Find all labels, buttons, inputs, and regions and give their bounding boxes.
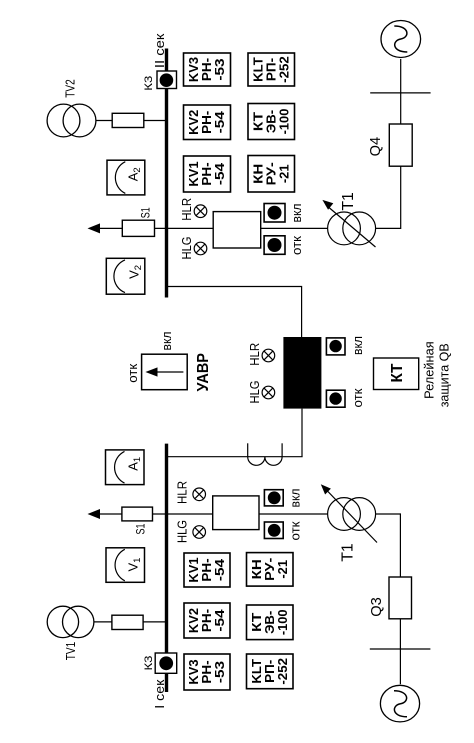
svg-text:KLTРП--252: KLTРП--252: [250, 56, 291, 83]
wire drive box to T1 (top): [261, 227, 328, 229]
relay КН РУ-21 (top): [248, 156, 295, 193]
winding coil on tie line: [248, 443, 282, 465]
svg-text:отк: отк: [290, 235, 304, 255]
arrow feeder (bottom): [88, 509, 101, 519]
wire Q3 to generator (bottom): [399, 619, 401, 684]
relay КН РУ-21 (bottom): [247, 553, 294, 587]
switch S1 (bottom): [122, 507, 153, 521]
svg-text:S1: S1: [138, 207, 152, 218]
relay KV3 РН-53 (top): [184, 53, 231, 86]
short-circuit marker K3 on busbar II: [157, 71, 177, 89]
svg-text:KV2РН--54: KV2РН--54: [186, 608, 227, 633]
svg-text:I сек: I сек: [152, 679, 167, 708]
svg-text:отк: отк: [289, 521, 303, 541]
svg-text:KV3РН--53: KV3РН--53: [186, 57, 227, 82]
voltage transformer TV2: [47, 104, 96, 137]
voltmeter V2: [106, 258, 145, 294]
transformer T1 (bottom): [326, 490, 377, 543]
lamp HLG (bottom): [193, 526, 206, 539]
svg-text:Q3: Q3: [368, 597, 385, 617]
svg-text:KV3РН--53: KV3РН--53: [186, 659, 227, 684]
switch S1 (top): [122, 220, 154, 236]
wire fuse to busbar II: [144, 120, 165, 122]
wire T1 to Q3: [376, 514, 401, 577]
svg-text:HLR: HLR: [247, 343, 262, 366]
relay KV3 РН-53 (bottom): [184, 654, 230, 690]
relay KV2 РН-54 (top): [184, 105, 231, 140]
svg-text:KV2РН--54: KV2РН--54: [186, 110, 227, 135]
tie tick line (bottom): [370, 648, 431, 650]
wire busbar II to contactor QB: [168, 287, 302, 338]
lamp HLR (middle): [262, 349, 275, 362]
wire TV1 to fuse: [94, 621, 112, 623]
ammeter A2: [107, 160, 145, 195]
fuse FU1: [112, 615, 143, 629]
button вкл (bottom): [264, 490, 283, 506]
arrow feeder (top): [88, 223, 101, 233]
relay KLT РП-252 (top): [248, 53, 295, 86]
wire contactor QB down: [301, 409, 303, 457]
tap arrow T1 (bottom): [321, 484, 331, 494]
transformer T1 (top): [326, 205, 376, 247]
svg-text:KV1РН--54: KV1РН--54: [186, 161, 227, 186]
svg-text:УАВР: УАВР: [195, 353, 212, 392]
svg-text:HLR: HLR: [179, 198, 194, 221]
svg-text:вкл: вкл: [290, 204, 304, 223]
busbar I section: [165, 444, 168, 692]
button отк (bottom): [264, 522, 283, 539]
svg-text:S1: S1: [133, 523, 147, 534]
wire feeder S1 (top): [99, 227, 165, 229]
relay KV1 РН-54 (bottom): [184, 553, 230, 587]
svg-text:Q4: Q4: [367, 137, 384, 157]
svg-text:HLG: HLG: [247, 381, 262, 404]
svg-text:вкл: вкл: [160, 332, 174, 351]
lamp HLG (top): [194, 242, 207, 255]
svg-text:KLTРП--252: KLTРП--252: [249, 658, 290, 685]
button вкл (middle): [326, 338, 345, 355]
lamp HLR (bottom): [193, 488, 206, 501]
svg-text:КТ: КТ: [389, 363, 406, 382]
wire drive box to T1 (bottom): [259, 513, 328, 515]
relay KV2 РН-54 (bottom): [184, 603, 230, 638]
svg-text:KV1РН--54: KV1РН--54: [186, 557, 227, 582]
svg-text:HLG: HLG: [175, 520, 190, 543]
breaker drive box QB2: [213, 212, 261, 248]
svg-text:TV2: TV2: [62, 79, 77, 98]
svg-text:КНРУ--21: КНРУ--21: [250, 162, 291, 185]
device УАВР: [142, 354, 188, 390]
button отк (middle): [326, 390, 345, 407]
relay KLT РП-252 (bottom): [247, 654, 294, 689]
svg-text:отк: отк: [351, 388, 365, 408]
svg-text:КТЭВ--100: КТЭВ--100: [249, 609, 290, 635]
lamp HLG (middle): [262, 386, 275, 399]
wire fuse to busbar I: [143, 621, 165, 623]
relay KV1 РН-54 (top): [184, 156, 231, 192]
svg-text:отк: отк: [126, 363, 140, 383]
voltmeter V1: [106, 548, 145, 583]
lamp HLR (top): [194, 205, 207, 218]
svg-text:КТЭВ--100: КТЭВ--100: [250, 109, 291, 135]
busbar II section: [165, 49, 168, 298]
svg-text:К3: К3: [143, 656, 155, 671]
svg-text:HLR: HLR: [175, 481, 190, 504]
svg-text:КНРУ--21: КНРУ--21: [249, 558, 290, 581]
wire TV2 to fuse: [96, 120, 112, 122]
breaker drive box QB1: [213, 496, 259, 530]
generator G1 (bottom right): [380, 685, 419, 722]
svg-text:II сек: II сек: [152, 33, 167, 68]
voltage transformer TV1: [47, 606, 94, 637]
fuse FU2: [112, 113, 144, 127]
contactor QB (black box): [283, 337, 321, 409]
svg-text:Релейнаязащита QB: Релейнаязащита QB: [421, 341, 451, 407]
svg-text:вкл: вкл: [289, 489, 303, 508]
tap arrow T1 (top): [322, 200, 333, 210]
breaker Q3: [389, 577, 412, 619]
svg-text:К3: К3: [143, 76, 155, 91]
ammeter A1: [106, 450, 145, 485]
button отк (top): [264, 236, 285, 255]
svg-text:TV1: TV1: [63, 642, 78, 661]
wire busbar II to drive box: [168, 227, 213, 229]
relay КТ ЭВ-100 (bottom): [247, 605, 294, 640]
svg-text:вкл: вкл: [351, 336, 365, 355]
wire feeder S1 (bottom): [99, 513, 165, 515]
wire busbar I to contactor branch: [168, 456, 303, 458]
breaker Q4: [389, 124, 412, 166]
svg-text:T1: T1: [340, 192, 357, 211]
wire T1 to Q4: [376, 166, 401, 228]
relay КТ (QB protection): [374, 358, 419, 390]
svg-text:HLG: HLG: [179, 237, 194, 260]
relay КТ ЭВ-100 (top): [248, 104, 295, 140]
wire busbar I to drive box: [168, 513, 213, 515]
button вкл (top): [264, 204, 285, 223]
generator G2 (top right): [381, 21, 421, 58]
short-circuit marker K3 on busbar I: [155, 653, 177, 673]
tie tick line (top): [370, 92, 430, 94]
wire Q4 to generator (top): [400, 59, 402, 124]
svg-text:T1: T1: [340, 543, 357, 562]
